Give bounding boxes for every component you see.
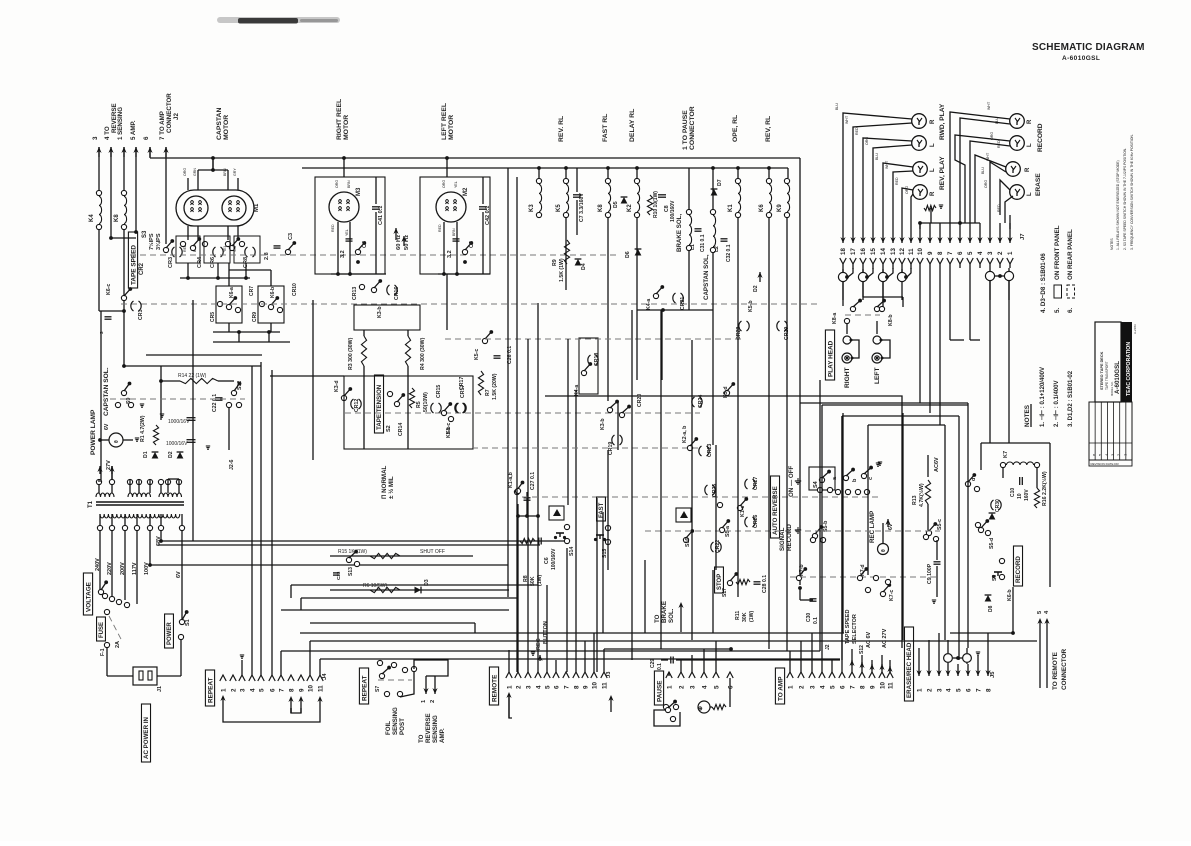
svg-text:FAST RL: FAST RL: [602, 114, 609, 142]
svg-text:2.8: 2.8: [264, 252, 270, 260]
svg-text:D8: D8: [988, 605, 994, 612]
svg-text:S3: S3: [142, 230, 148, 238]
svg-text:C6: C6: [544, 557, 550, 564]
svg-text:50(10W): 50(10W): [423, 392, 429, 412]
svg-text:6V: 6V: [176, 571, 182, 578]
svg-text:CR19: CR19: [608, 442, 614, 455]
svg-text:MOTOR: MOTOR: [343, 115, 350, 140]
svg-text:d: d: [971, 478, 977, 481]
svg-text:M1: M1: [254, 203, 260, 212]
svg-text:C4: C4: [362, 240, 368, 248]
svg-text:2: 2: [678, 685, 685, 689]
svg-text:CR23: CR23: [707, 444, 713, 457]
svg-text:11: 11: [908, 248, 915, 255]
svg-text:CAPSTAN SOL.: CAPSTAN SOL.: [103, 367, 110, 416]
svg-text:K5-b: K5-b: [748, 300, 754, 312]
svg-text:PLAY HEAD: PLAY HEAD: [827, 340, 834, 377]
svg-text:BRN: BRN: [347, 180, 351, 188]
svg-text:K2-a, b: K2-a, b: [682, 426, 688, 443]
svg-text:CR28: CR28: [736, 327, 742, 340]
svg-text:K3-d: K3-d: [334, 380, 340, 392]
svg-text:16: 16: [860, 248, 867, 255]
svg-text:10: 10: [917, 248, 924, 255]
svg-text:PAUSE: PAUSE: [656, 680, 663, 702]
svg-text:4: 4: [977, 251, 984, 255]
svg-text:REV. RL: REV. RL: [558, 116, 565, 142]
svg-text:NOTES: NOTES: [1110, 238, 1114, 250]
svg-text:K6-b: K6-b: [270, 287, 276, 298]
svg-text:7: 7: [975, 688, 982, 692]
svg-text:AC POWER IN: AC POWER IN: [143, 717, 150, 759]
svg-text:R16 2.2K(½W): R16 2.2K(½W): [1041, 471, 1048, 506]
svg-text:TAPE SPEED: TAPE SPEED: [845, 610, 851, 644]
svg-text:TAPE TRANSPORT: TAPE TRANSPORT: [1105, 361, 1109, 390]
svg-text:ORG: ORG: [905, 186, 909, 194]
svg-text:6: 6: [957, 251, 964, 255]
svg-text:CR10: CR10: [292, 283, 298, 296]
svg-text:L1: L1: [690, 244, 696, 250]
svg-text:K9: K9: [777, 204, 783, 212]
svg-text:RWD, PLAY: RWD, PLAY: [939, 103, 946, 140]
svg-text:11: 11: [601, 682, 608, 689]
svg-text:RIGHT: RIGHT: [844, 367, 851, 388]
svg-text:1: 1: [666, 685, 673, 689]
svg-text:7: 7: [947, 251, 954, 255]
svg-text:D5: D5: [613, 201, 619, 208]
svg-text:A-2183: A-2183: [1133, 324, 1137, 334]
svg-text:C7 3.3/160V: C7 3.3/160V: [579, 193, 585, 222]
svg-text:LEFT REEL: LEFT REEL: [441, 103, 448, 140]
svg-text:0.1: 0.1: [813, 617, 819, 624]
svg-text:1 TO PAUSE: 1 TO PAUSE: [682, 110, 689, 150]
svg-text:60 Hz: 60 Hz: [396, 235, 402, 250]
svg-text:3. FREQUENCY CONVERSION SWITCH: 3. FREQUENCY CONVERSION SWITCH SHOWN IN …: [1130, 134, 1134, 250]
svg-text:8: 8: [937, 251, 944, 255]
svg-text:POWER: POWER: [167, 622, 173, 645]
svg-text:K4: K4: [89, 214, 95, 222]
svg-text:NOTES: NOTES: [1024, 404, 1031, 427]
svg-text:CR26: CR26: [753, 515, 759, 528]
svg-text:ORG: ORG: [442, 180, 446, 188]
svg-text:3: 3: [239, 688, 246, 692]
svg-text:BRN: BRN: [452, 228, 456, 236]
svg-text:3¾IPS: 3¾IPS: [155, 233, 162, 250]
svg-text:5.: 5.: [1054, 308, 1061, 313]
svg-text:R: R: [1025, 167, 1031, 172]
svg-text:YEL: YEL: [345, 229, 349, 236]
svg-text:2: 2: [230, 688, 237, 692]
svg-text:K7-b: K7-b: [799, 564, 805, 576]
svg-text:3. D1,D2 : S1B01-02: 3. D1,D2 : S1B01-02: [1068, 370, 1074, 427]
svg-text:K7-c: K7-c: [889, 590, 895, 601]
svg-text:C41 0.1: C41 0.1: [378, 206, 384, 225]
svg-text:CR14: CR14: [398, 423, 404, 436]
svg-text:1. ALL RELAYS SHOWN NOT ENERGI: 1. ALL RELAYS SHOWN NOT ENERGIZED (STOP …: [1116, 160, 1120, 250]
svg-text:RED: RED: [895, 177, 899, 185]
svg-text:WHT: WHT: [845, 115, 849, 124]
svg-text:GRY: GRY: [233, 168, 237, 176]
svg-text:K7: K7: [1003, 451, 1009, 458]
svg-text:1.5K (20W): 1.5K (20W): [492, 373, 498, 400]
svg-text:J3: J3: [606, 671, 612, 678]
svg-text:2A: 2A: [115, 641, 121, 648]
svg-text:DELAY RL: DELAY RL: [629, 109, 636, 142]
svg-text:2. S3 TAPE SPEED SWITCH SHOWN: 2. S3 TAPE SPEED SWITCH SHOWN IN THE 7-1…: [1123, 148, 1127, 250]
svg-text:⊕: ⊕: [698, 706, 704, 711]
svg-text:CR1: CR1: [138, 310, 144, 320]
svg-text:R: R: [930, 191, 936, 196]
svg-text:ORG: ORG: [984, 180, 988, 188]
svg-text:C5: C5: [469, 241, 475, 248]
svg-text:5: 5: [967, 251, 974, 255]
svg-text:K1-a,b: K1-a,b: [508, 472, 514, 488]
svg-text:1: 1: [506, 685, 513, 689]
svg-text:6V: 6V: [888, 523, 894, 530]
svg-text:K1-c: K1-c: [740, 506, 746, 517]
svg-text:SOL.: SOL.: [668, 608, 675, 623]
svg-text:C22 0.1: C22 0.1: [212, 394, 218, 412]
svg-text:1. ⊣⊢ : 0.1+120/400V: 1. ⊣⊢ : 0.1+120/400V: [1038, 367, 1046, 427]
svg-text:4 TO: 4 TO: [104, 126, 111, 140]
svg-text:CONNECTOR: CONNECTOR: [1061, 649, 1068, 690]
svg-text:100/160V: 100/160V: [551, 548, 557, 570]
svg-text:BRN: BRN: [223, 168, 227, 176]
svg-text:7: 7: [849, 685, 856, 689]
svg-text:K6-c: K6-c: [106, 284, 112, 295]
svg-text:S2: S2: [386, 425, 392, 432]
svg-text:J5: J5: [990, 671, 996, 678]
svg-text:7: 7: [278, 688, 285, 692]
svg-text:K8-a: K8-a: [832, 313, 838, 324]
svg-text:C3: C3: [288, 233, 294, 240]
svg-text:ORG: ORG: [183, 168, 187, 176]
svg-text:K3-b: K3-b: [600, 418, 606, 430]
svg-text:M2: M2: [463, 187, 469, 196]
svg-text:L: L: [930, 143, 936, 147]
svg-text:C31 0.1: C31 0.1: [700, 234, 706, 252]
svg-text:RED: RED: [331, 224, 335, 232]
svg-text:6: 6: [839, 685, 846, 689]
svg-text:9: 9: [582, 685, 589, 689]
svg-text:CR12: CR12: [354, 399, 360, 412]
svg-text:S1: S1: [185, 619, 191, 626]
svg-text:10: 10: [307, 684, 314, 692]
svg-text:11: 11: [887, 682, 894, 689]
svg-text:FUSE: FUSE: [99, 622, 105, 638]
svg-text:18: 18: [840, 248, 847, 255]
svg-text:REPEAT: REPEAT: [207, 677, 214, 703]
svg-text:LEFT: LEFT: [874, 368, 881, 384]
svg-text:10: 10: [879, 681, 886, 689]
svg-text:J1: J1: [157, 686, 163, 692]
svg-text:T1: T1: [88, 500, 94, 508]
svg-text:SHUT OFF: SHUT OFF: [420, 549, 445, 555]
svg-text:CR13: CR13: [352, 287, 358, 300]
svg-text:C28 0.1: C28 0.1: [762, 575, 768, 593]
svg-text:5: 5: [955, 688, 962, 692]
svg-text:C9 100P: C9 100P: [927, 563, 933, 584]
svg-text:14: 14: [880, 248, 887, 255]
svg-text:9: 9: [927, 251, 934, 255]
svg-text:10: 10: [591, 681, 598, 689]
svg-text:0.1: 0.1: [657, 663, 663, 670]
svg-text:S17: S17: [722, 588, 728, 597]
svg-text:5: 5: [713, 685, 720, 689]
svg-text:C30: C30: [806, 613, 812, 622]
svg-text:S5-b: S5-b: [823, 521, 829, 532]
svg-text:6V: 6V: [104, 423, 110, 430]
svg-text:ORG: ORG: [335, 180, 339, 188]
svg-text:5: 5: [829, 685, 836, 689]
svg-text:ON — OFF: ON — OFF: [788, 466, 795, 497]
svg-text:4: 4: [819, 685, 826, 689]
svg-text:R3 300 (30W): R3 300 (30W): [348, 337, 354, 370]
svg-text:3: 3: [987, 251, 994, 255]
svg-text:S13: S13: [348, 567, 354, 576]
svg-text:AC6V: AC6V: [934, 457, 940, 472]
svg-text:8: 8: [859, 685, 866, 689]
svg-text:S8: S8: [992, 575, 998, 581]
svg-text:C42 0.1: C42 0.1: [485, 206, 491, 225]
svg-text:S14: S14: [569, 547, 575, 556]
svg-text:FOIL: FOIL: [385, 721, 392, 735]
svg-text:TAPE TENSION: TAPE TENSION: [376, 384, 383, 430]
svg-text:4.7K(½W): 4.7K(½W): [918, 483, 925, 507]
svg-text:4. D3~D8 : S1B01-06: 4. D3~D8 : S1B01-06: [1040, 253, 1047, 313]
svg-text:2: 2: [997, 251, 1004, 255]
svg-text:ON FRONT PANEL: ON FRONT PANEL: [1054, 225, 1061, 280]
svg-text:R6 10(5W): R6 10(5W): [363, 583, 388, 589]
svg-text:WHT: WHT: [987, 101, 991, 110]
svg-text:D4: D4: [581, 263, 587, 270]
svg-text:3.2: 3.2: [340, 250, 346, 258]
svg-text:K8-b: K8-b: [888, 314, 894, 326]
svg-text:CR3: CR3: [168, 257, 174, 268]
svg-text:1: 1: [916, 688, 923, 692]
svg-text:TO: TO: [418, 734, 425, 743]
svg-text:9: 9: [298, 688, 305, 692]
svg-text:GRN: GRN: [193, 168, 197, 176]
svg-text:K7-d: K7-d: [860, 564, 866, 576]
svg-text:D1: D1: [143, 451, 149, 458]
svg-text:160V: 160V: [1024, 489, 1030, 501]
svg-text:CR27: CR27: [753, 477, 759, 490]
svg-text:3: 3: [525, 685, 532, 689]
svg-text:F-1: F-1: [100, 648, 106, 656]
svg-text:S12: S12: [237, 381, 243, 390]
svg-text:ERASE/REC HEAD: ERASE/REC HEAD: [906, 642, 913, 698]
svg-text:1: 1: [220, 688, 227, 692]
svg-text:D6: D6: [625, 251, 631, 258]
svg-text:R14 22 (1W): R14 22 (1W): [178, 373, 207, 379]
svg-text:SELECTOR: SELECTOR: [852, 614, 858, 644]
svg-text:REMOTE: REMOTE: [491, 674, 498, 702]
svg-text:K2: K2: [627, 204, 633, 212]
svg-text:ERASE: ERASE: [1035, 173, 1042, 196]
svg-text:K5-c: K5-c: [446, 427, 452, 438]
svg-text:c: c: [868, 477, 874, 480]
svg-text:L: L: [1027, 192, 1033, 196]
svg-text:MOTOR: MOTOR: [223, 115, 230, 140]
svg-text:R11: R11: [735, 611, 741, 620]
svg-text:4: 4: [701, 685, 708, 689]
svg-text:C10: C10: [1010, 488, 1016, 497]
svg-text:RED: RED: [855, 127, 859, 135]
svg-text:A-6010GSL: A-6010GSL: [1062, 55, 1100, 62]
svg-text:REV, PLAY: REV, PLAY: [939, 156, 946, 190]
svg-text:11: 11: [317, 685, 324, 692]
svg-text:TO AMP: TO AMP: [777, 676, 784, 701]
svg-text:CR18: CR18: [594, 353, 600, 366]
svg-text:CR30: CR30: [995, 499, 1001, 512]
svg-text:7½IPS: 7½IPS: [148, 233, 155, 250]
svg-text:S16: S16: [685, 538, 691, 547]
svg-text:TAPE SPEED: TAPE SPEED: [130, 245, 137, 285]
svg-text:K1: K1: [728, 204, 734, 212]
svg-text:2. ⊣⊢ : 0.1/400V: 2. ⊣⊢ : 0.1/400V: [1052, 381, 1060, 427]
svg-text:3: 3: [689, 685, 696, 689]
svg-text:30K: 30K: [742, 612, 748, 622]
svg-text:BLU: BLU: [835, 103, 839, 110]
svg-text:8: 8: [573, 685, 580, 689]
svg-text:RED: RED: [438, 224, 442, 232]
svg-text:9: 9: [869, 685, 876, 689]
svg-text:TEAC CORPORATION: TEAC CORPORATION: [1126, 342, 1132, 396]
svg-text:3: 3: [92, 136, 99, 140]
svg-text:BRAKE: BRAKE: [661, 601, 668, 623]
svg-text:C32 0.1: C32 0.1: [726, 244, 732, 262]
svg-text:(1W): (1W): [749, 610, 755, 622]
svg-text:K5-c: K5-c: [474, 349, 480, 360]
svg-text:3: 3: [809, 685, 816, 689]
svg-text:6: 6: [727, 685, 734, 689]
svg-text:C27 0.1: C27 0.1: [530, 472, 536, 490]
svg-text:6: 6: [269, 688, 276, 692]
svg-text:S5-c: S5-c: [937, 519, 943, 530]
svg-text:8: 8: [985, 688, 992, 692]
svg-text:L: L: [930, 168, 936, 172]
svg-text:REVERSE: REVERSE: [425, 713, 432, 743]
svg-text:REC LAMP: REC LAMP: [869, 511, 876, 543]
svg-text:M3: M3: [356, 187, 362, 196]
svg-text:AC 27V: AC 27V: [882, 628, 888, 648]
svg-text:D7: D7: [717, 179, 723, 186]
svg-text:CR17: CR17: [459, 377, 465, 390]
svg-text:1: 1: [1007, 251, 1014, 255]
svg-text:1: 1: [787, 685, 794, 689]
svg-text:CAPSTAN SOL,: CAPSTAN SOL,: [703, 254, 710, 300]
svg-text:R7: R7: [485, 389, 491, 396]
svg-text:7 TO AMP: 7 TO AMP: [159, 111, 166, 140]
svg-text:2: 2: [430, 700, 436, 703]
svg-text:AMP.: AMP.: [439, 728, 446, 743]
svg-text:REPEAT: REPEAT: [361, 675, 368, 701]
svg-text:J4: J4: [322, 673, 328, 680]
svg-text:CR21: CR21: [680, 297, 686, 310]
svg-text:8: 8: [288, 688, 295, 692]
svg-text:4: 4: [535, 685, 542, 689]
svg-text:6: 6: [143, 136, 150, 140]
svg-text:5 AMP.: 5 AMP.: [130, 120, 137, 140]
svg-text:50 Hz: 50 Hz: [404, 235, 410, 250]
svg-text:θ: θ: [881, 549, 887, 552]
svg-text:CR5: CR5: [210, 312, 216, 322]
svg-text:K8: K8: [114, 214, 120, 222]
svg-text:TO: TO: [654, 614, 661, 623]
svg-text:R1 4.7(2W): R1 4.7(2W): [140, 415, 146, 442]
svg-text:R5: R5: [416, 401, 422, 408]
svg-text:CONNECTOR: CONNECTOR: [166, 93, 173, 133]
svg-text:L: L: [1027, 143, 1033, 147]
svg-text:ORG: ORG: [865, 137, 869, 145]
svg-text:S4: S4: [813, 480, 819, 488]
svg-text:CR25: CR25: [712, 484, 718, 497]
svg-text:13: 13: [890, 248, 897, 255]
svg-text:MOTOR: MOTOR: [448, 115, 455, 140]
svg-text:R4 300 (30W): R4 300 (30W): [420, 337, 426, 370]
svg-text:R9: R9: [552, 259, 558, 266]
svg-text:R13: R13: [912, 495, 918, 505]
svg-text:10: 10: [1017, 493, 1023, 499]
svg-text:5: 5: [544, 685, 551, 689]
svg-text:1000/16V: 1000/16V: [166, 441, 188, 447]
svg-text:1.5K (1W): 1.5K (1W): [559, 258, 565, 282]
svg-text:REVISION DATE DR: REVISION DATE DR: [1091, 462, 1120, 466]
svg-text:CR2: CR2: [139, 262, 145, 275]
svg-text:6.: 6.: [1067, 308, 1074, 313]
svg-text:S7: S7: [375, 686, 381, 692]
svg-text:BLU: BLU: [875, 153, 879, 160]
svg-text:CR9: CR9: [252, 312, 258, 322]
svg-text:K4-a: K4-a: [574, 385, 580, 396]
svg-text:POWER LAMP: POWER LAMP: [90, 409, 97, 455]
svg-text:θ: θ: [114, 440, 120, 443]
svg-text:SCHEMATIC DIAGRAM: SCHEMATIC DIAGRAM: [1032, 42, 1145, 53]
svg-text:S5-d: S5-d: [989, 538, 995, 549]
svg-text:ON REAR PANEL: ON REAR PANEL: [1067, 229, 1074, 280]
svg-text:12: 12: [899, 248, 906, 255]
svg-text:J2: J2: [825, 644, 831, 650]
svg-text:REC: REC: [536, 638, 542, 650]
svg-text:15: 15: [870, 248, 877, 255]
svg-text:J2-6: J2-6: [229, 460, 235, 470]
svg-text:FAST: FAST: [599, 502, 605, 518]
svg-text:K6-a: K6-a: [229, 287, 235, 298]
svg-text:R: R: [930, 119, 936, 124]
svg-text:6: 6: [965, 688, 972, 692]
svg-text:CONNECTOR: CONNECTOR: [689, 106, 696, 150]
svg-text:K4-a: K4-a: [646, 299, 652, 310]
svg-text:CR7: CR7: [249, 286, 255, 296]
svg-text:3: 3: [936, 688, 943, 692]
svg-text:± ½ MIL: ± ½ MIL: [388, 476, 395, 499]
svg-text:5: 5: [258, 688, 265, 692]
svg-text:R: R: [1027, 119, 1033, 124]
svg-text:J7: J7: [1020, 234, 1026, 240]
svg-text:6: 6: [553, 685, 560, 689]
svg-text:CR6: CR6: [210, 257, 216, 268]
svg-text:K3-b: K3-b: [377, 306, 383, 318]
svg-text:OPE, RL: OPE, RL: [732, 115, 739, 142]
svg-text:4: 4: [945, 688, 952, 692]
svg-text:K6: K6: [759, 204, 765, 212]
svg-text:CAPSTAN: CAPSTAN: [216, 108, 223, 140]
svg-text:J2: J2: [173, 113, 180, 120]
svg-text:4: 4: [249, 688, 256, 692]
svg-text:K8: K8: [598, 204, 604, 212]
svg-text:CR15: CR15: [436, 385, 442, 398]
svg-text:RIGHT REEL: RIGHT REEL: [336, 99, 343, 140]
